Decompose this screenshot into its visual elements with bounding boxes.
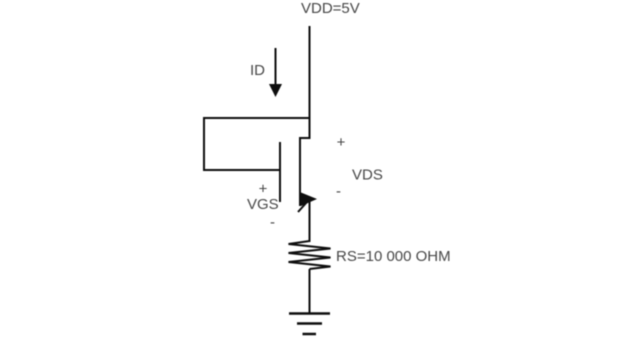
svg-text:ID: ID [250,62,265,79]
resistor RS zigzag [289,241,331,269]
wire gate feedback bottom [204,169,280,171]
svg-text:+: + [337,134,346,151]
svg-text:+: + [259,181,268,198]
wire drain from VDD [309,26,311,139]
svg-text:-: - [336,183,341,200]
wire resistor to ground [309,269,311,314]
transistor Q1 gate bar [279,142,281,202]
svg-text:VGS: VGS [247,196,279,213]
wire source to resistor [309,197,311,242]
svg-text:RS=10 000 OHM: RS=10 000 OHM [336,248,451,265]
wire gate feedback left [203,117,205,171]
current ID arrow [269,48,282,97]
wire gate feedback top [204,117,311,119]
ground symbol [289,314,330,335]
svg-text:-: - [270,214,275,231]
svg-text:VDD=5V: VDD=5V [301,0,360,17]
transistor Q1 drain jog and channel bar [300,138,310,206]
transistor Q1 source arrow [298,193,317,213]
svg-text:VDS: VDS [352,167,383,184]
